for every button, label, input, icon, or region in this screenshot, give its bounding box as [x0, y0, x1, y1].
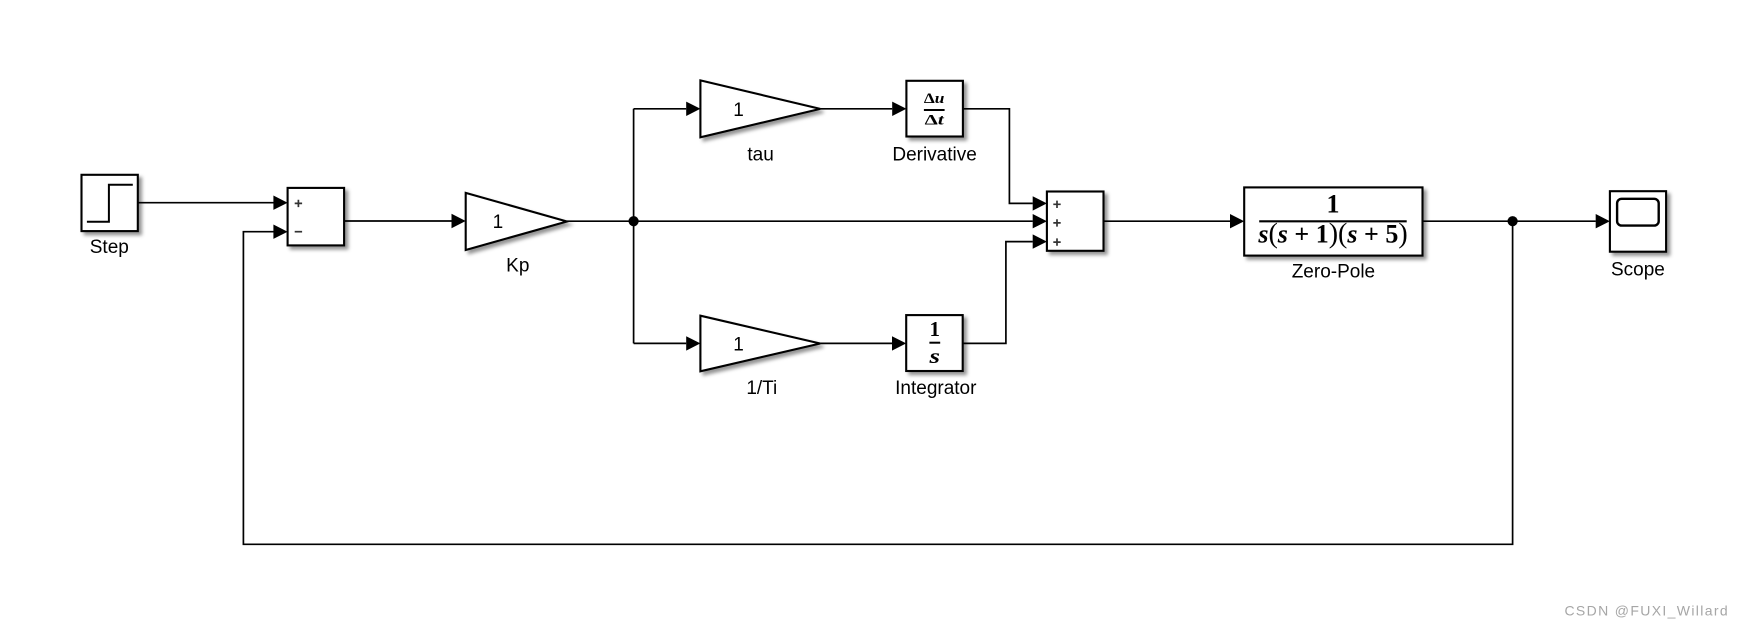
- arrowhead into Derivative: [892, 102, 906, 116]
- wire Sum1 to Kp: [344, 220, 451, 222]
- gain Kp triangle: [466, 193, 567, 250]
- feedback wire: [243, 221, 1512, 544]
- arrowhead into Integrator: [892, 336, 906, 350]
- wire Integrator to Sum2 bottom: [963, 242, 1033, 344]
- arrowhead into Sum2 bottom port: [1033, 234, 1047, 248]
- plus sign Sum2 bottom: [1053, 238, 1060, 245]
- scope screen: [1617, 199, 1659, 226]
- arrowhead into Kp: [452, 214, 466, 228]
- zero-pole block Zero-Pole: [1244, 187, 1422, 255]
- gain 1/Ti triangle: [700, 316, 820, 372]
- branch node dot: [629, 216, 639, 226]
- step source block Step: [82, 175, 138, 231]
- plus sign Sum1: [295, 200, 302, 207]
- arrowhead into Sum2 middle port: [1033, 214, 1047, 228]
- fraction bar Derivative: [924, 109, 945, 111]
- arrowhead into 1/Ti: [686, 336, 700, 350]
- sum block Sum1: [288, 188, 345, 246]
- wire tau to Derivative: [820, 108, 892, 110]
- svg-text:Δt: Δt: [925, 113, 945, 129]
- svg-text:Integrator: Integrator: [895, 378, 977, 399]
- svg-text:CSDN @FUXI_Willard: CSDN @FUXI_Willard: [1564, 602, 1729, 618]
- derivative block Derivative: [906, 81, 963, 137]
- wire Sum2 to Zero-Pole: [1104, 220, 1231, 222]
- plus sign Sum2 top: [1053, 201, 1060, 208]
- wire branch to 1/Ti: [634, 342, 687, 344]
- arrowhead into Sum1 plus port: [273, 196, 287, 210]
- svg-text:tau: tau: [747, 144, 773, 165]
- arrowhead into Zero-Pole: [1230, 214, 1244, 228]
- svg-text:s: s: [928, 344, 940, 368]
- svg-text:1: 1: [493, 212, 504, 233]
- plus sign Sum2 middle: [1053, 219, 1060, 226]
- svg-text:Step: Step: [90, 237, 129, 258]
- arrowhead into Sum1 minus port: [273, 225, 287, 239]
- fraction bar Integrator: [929, 342, 940, 344]
- wire branch to tau: [634, 108, 687, 110]
- svg-text:Scope: Scope: [1611, 260, 1665, 281]
- wire branch to Sum2 middle: [634, 220, 1033, 222]
- wire Kp to branch node: [567, 220, 634, 222]
- wire 1/Ti to Integrator: [820, 342, 892, 344]
- arrowhead into Scope: [1596, 214, 1610, 228]
- gain tau triangle: [700, 80, 820, 137]
- svg-text:Kp: Kp: [506, 256, 529, 277]
- svg-text:s(s + 1)(s + 5): s(s + 1)(s + 5): [1257, 219, 1407, 250]
- svg-text:1: 1: [733, 335, 744, 356]
- wire Zero-Pole to Scope: [1423, 220, 1596, 222]
- arrowhead into Sum2 top port: [1033, 196, 1047, 210]
- svg-text:1/Ti: 1/Ti: [746, 378, 777, 399]
- svg-text:1: 1: [930, 317, 941, 341]
- minus sign Sum1: [295, 231, 302, 233]
- wire Derivative to Sum2 top: [963, 109, 1033, 204]
- svg-text:Zero-Pole: Zero-Pole: [1292, 261, 1375, 282]
- step waveform glyph: [87, 185, 133, 222]
- svg-text:1: 1: [733, 100, 744, 121]
- svg-text:1: 1: [1327, 190, 1340, 219]
- vertical branch wire: [633, 109, 635, 344]
- scope block Scope: [1610, 191, 1666, 252]
- sum block Sum2: [1047, 192, 1104, 251]
- svg-text:Δu: Δu: [924, 91, 945, 107]
- arrowhead into tau: [686, 102, 700, 116]
- wire Step to Sum1: [138, 202, 274, 204]
- fraction bar Zero-Pole: [1259, 220, 1407, 222]
- integrator block Integrator: [906, 315, 963, 371]
- branch node dot (feedback): [1508, 216, 1518, 226]
- svg-text:Derivative: Derivative: [892, 144, 976, 165]
